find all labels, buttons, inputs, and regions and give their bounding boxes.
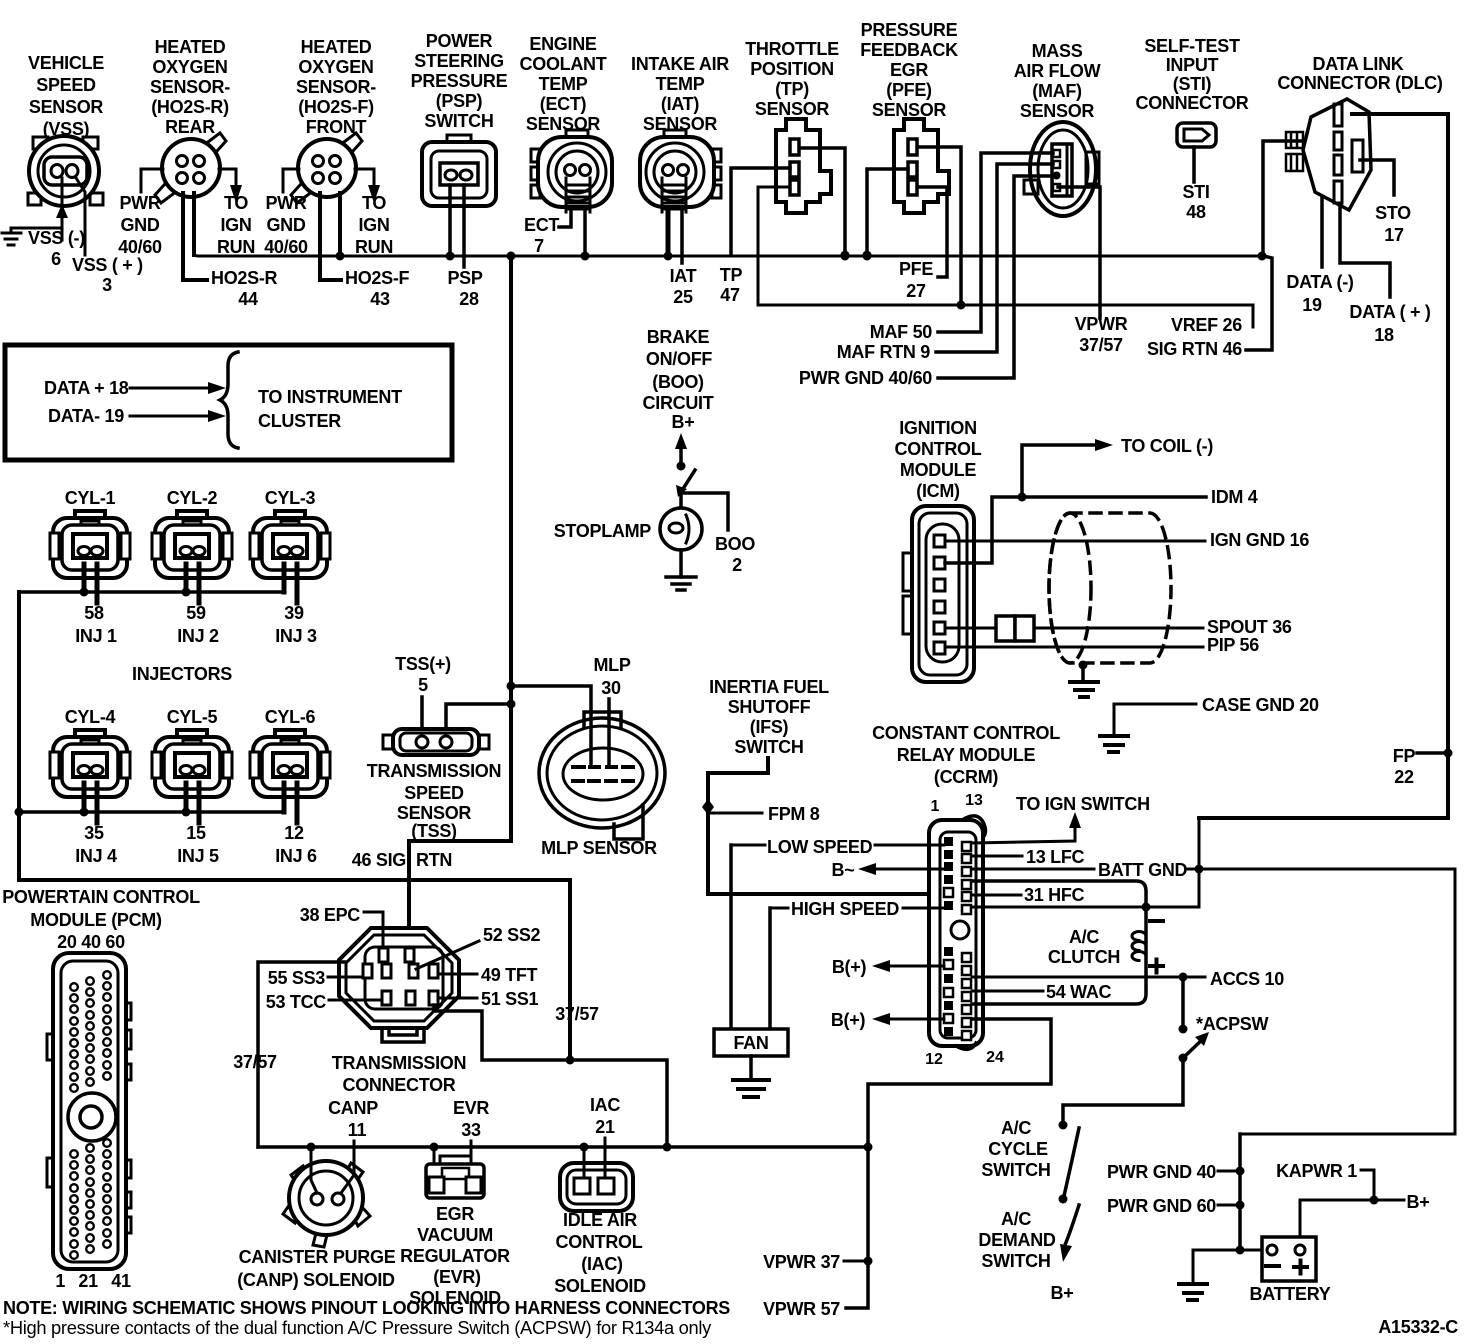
label LOW SPEED	[767, 837, 873, 857]
svg-text:7: 7	[534, 236, 544, 256]
svg-text:CANISTER PURGE: CANISTER PURGE	[239, 1247, 396, 1267]
connector IAT (intake air temp sensor)	[640, 130, 721, 207]
svg-text:STO: STO	[1375, 203, 1411, 223]
svg-text:SIG RTN 46: SIG RTN 46	[1147, 339, 1242, 359]
wire PFE pin2 to sig rtn	[863, 169, 909, 260]
label VSS (-) 6	[28, 228, 85, 269]
svg-text:15: 15	[186, 823, 206, 843]
label 38 EPC	[300, 905, 361, 925]
svg-text:30: 30	[601, 678, 621, 698]
svg-text:DATA (-): DATA (-)	[1286, 272, 1354, 292]
svg-text:A/C: A/C	[1001, 1118, 1031, 1138]
connector PCM (powertrain control module)	[47, 953, 131, 1269]
label pin 13 (CCRM)	[965, 792, 983, 809]
connector STI (self-test input)	[1177, 123, 1216, 147]
svg-text:*High pressure contacts of the: *High pressure contacts of the dual func…	[3, 1318, 711, 1338]
wire 31 HFC long	[972, 818, 1199, 912]
svg-text:TP: TP	[720, 265, 743, 285]
label EVR 33	[453, 1098, 489, 1140]
svg-text:(IFS): (IFS)	[750, 717, 789, 737]
wire IAC pin2	[604, 1138, 607, 1178]
svg-text:GND: GND	[120, 215, 159, 235]
label 52 SS2	[483, 925, 541, 945]
label pin 12 (CCRM)	[925, 1051, 943, 1068]
svg-text:COOLANT: COOLANT	[520, 54, 607, 74]
label VPWR 37/57	[1075, 314, 1128, 355]
label TO IGN RUN (HO2S-F)	[355, 193, 393, 257]
label TO IGN SWITCH	[1016, 794, 1150, 814]
wire injector bus row1	[19, 590, 284, 594]
svg-text:12: 12	[925, 1051, 943, 1068]
wire TO COIL arrow	[1022, 439, 1113, 497]
wire TSS branch	[446, 704, 511, 734]
svg-text:ON/OFF: ON/OFF	[646, 349, 712, 369]
label pin 12 INJ 6	[275, 823, 317, 866]
label CYL-3	[265, 488, 316, 508]
svg-text:13 LFC: 13 LFC	[1026, 847, 1085, 867]
svg-text:CONSTANT CONTROL: CONSTANT CONTROL	[872, 723, 1060, 743]
label TP 47	[720, 265, 743, 305]
label HIGH SPEED	[791, 899, 899, 919]
svg-text:INJ 2: INJ 2	[177, 626, 219, 646]
label TP title	[745, 39, 839, 119]
label pin 59 INJ 2	[177, 603, 219, 646]
svg-text:21: 21	[595, 1117, 615, 1137]
connector PSP (power steering pressure switch)	[422, 135, 496, 206]
svg-text:31 HFC: 31 HFC	[1024, 885, 1085, 905]
connector CYL-1 injector	[50, 511, 130, 578]
svg-text:IGN: IGN	[220, 215, 251, 235]
wire TP pin2 to TP 47	[731, 168, 790, 255]
svg-text:(TSS): (TSS)	[411, 821, 457, 841]
label ECT title	[520, 34, 607, 134]
wire sig-rtn trunk x512	[409, 256, 516, 949]
label ICM title	[895, 418, 982, 501]
wire B(+) upper arrow	[872, 960, 944, 972]
wire ECT ribbed tail	[566, 178, 590, 212]
label B(+) upper	[832, 957, 867, 977]
svg-text:46 SIG: 46 SIG	[352, 850, 406, 870]
wire TP pin3 VREF line	[758, 187, 1253, 327]
svg-text:ACCS 10: ACCS 10	[1210, 969, 1284, 989]
svg-text:FPM 8: FPM 8	[768, 804, 820, 824]
svg-text:CYL-6: CYL-6	[265, 707, 316, 727]
connector TP (throttle position sensor)	[776, 119, 831, 213]
svg-text:VEHICLE: VEHICLE	[28, 53, 104, 73]
svg-text:SOLENOID: SOLENOID	[554, 1276, 646, 1296]
svg-text:40/60: 40/60	[264, 237, 308, 257]
svg-text:DATA + 18: DATA + 18	[44, 378, 129, 398]
svg-text:A15332-C: A15332-C	[1378, 1317, 1458, 1337]
label IAT title	[631, 54, 729, 134]
label pin 39 INJ 3	[275, 603, 317, 646]
svg-text:DATA LINK: DATA LINK	[1313, 54, 1404, 74]
wire PSP pin2 to PSP 28	[462, 185, 466, 267]
svg-text:CONTROL: CONTROL	[556, 1232, 643, 1252]
svg-text:25: 25	[673, 287, 693, 307]
wire battery plus to B+	[1300, 1200, 1404, 1237]
connector MLP sensor	[539, 712, 665, 839]
label CYL-2	[167, 488, 218, 508]
label VSS (+) 3	[72, 255, 143, 295]
wire MAF RTN 9	[936, 164, 1053, 352]
svg-text:48: 48	[1186, 202, 1206, 222]
lamp STOPLAMP	[660, 493, 702, 550]
wire HO2S-R 44 signal	[183, 193, 207, 280]
label BOO 2	[715, 534, 755, 575]
svg-text:TSS(+): TSS(+)	[395, 654, 451, 674]
ground (VSS)	[2, 233, 21, 245]
label CANISTER PURGE (CANP) SOLENOID	[237, 1247, 395, 1290]
label footnote	[3, 1318, 711, 1338]
wire ACPSW to cycle switch	[1059, 1058, 1184, 1130]
label A/C CLUTCH	[1048, 927, 1120, 967]
svg-text:PRESSURE: PRESSURE	[411, 71, 508, 91]
svg-text:REGULATOR: REGULATOR	[400, 1246, 510, 1266]
wire CASE GND 20	[1114, 704, 1196, 735]
svg-text:INJECTORS: INJECTORS	[132, 664, 232, 684]
label NOTE line	[3, 1298, 730, 1318]
svg-text:19: 19	[1302, 295, 1322, 315]
svg-text:CONNECTOR: CONNECTOR	[343, 1075, 456, 1095]
svg-text:38 EPC: 38 EPC	[300, 905, 361, 925]
wire IAT 25 drop	[680, 212, 684, 263]
label MLP SENSOR	[541, 838, 657, 858]
svg-text:CONTROL: CONTROL	[895, 439, 982, 459]
switch A/C cycle	[1059, 1128, 1080, 1204]
wire MAF 50	[938, 153, 1053, 332]
wire PFE pin1 to VREF	[918, 147, 966, 310]
wire fan ground	[749, 1056, 753, 1079]
label CANP 11	[328, 1098, 378, 1140]
label IGN GND 16	[1210, 530, 1309, 550]
ground (case gnd)	[1100, 736, 1128, 752]
label MLP 30	[593, 655, 630, 698]
svg-text:5: 5	[418, 675, 428, 695]
svg-text:B(+): B(+)	[831, 1010, 866, 1030]
svg-text:FP: FP	[1393, 746, 1416, 766]
connector CCRM (constant control relay module)	[929, 816, 985, 1050]
wire BOO branch	[681, 493, 728, 530]
label STOPLAMP	[554, 521, 652, 541]
svg-text:MLP SENSOR: MLP SENSOR	[541, 838, 657, 858]
label 53 TCC	[266, 992, 327, 1012]
wire DLC DATA(-)	[1320, 198, 1324, 267]
svg-text:47: 47	[720, 285, 740, 305]
svg-text:CYCLE: CYCLE	[988, 1139, 1048, 1159]
svg-text:KAPWR 1: KAPWR 1	[1276, 1161, 1357, 1181]
label 49 TFT	[481, 965, 538, 985]
wire B+ arrow (BOO)	[675, 433, 687, 471]
svg-text:POSITION: POSITION	[750, 59, 834, 79]
svg-text:VSS ( + ): VSS ( + )	[72, 255, 143, 275]
connector PFE (pressure feedback EGR sensor)	[894, 119, 949, 213]
svg-text:EVR: EVR	[453, 1098, 489, 1118]
svg-text:52 SS2: 52 SS2	[483, 925, 541, 945]
label VPWR 37	[763, 1252, 840, 1272]
label MAF title	[1014, 41, 1101, 121]
svg-text:49 TFT: 49 TFT	[481, 965, 538, 985]
wire CYL-3 pin2	[295, 564, 300, 603]
wire HO2S-F pwr gnd	[283, 169, 299, 192]
wire battery gnd vertical	[1236, 1134, 1245, 1255]
svg-text:HO2S-F: HO2S-F	[345, 268, 410, 288]
wire CYL-2 pin1	[182, 564, 191, 597]
connector HO2S-R (heated oxygen sensor rear)	[155, 133, 226, 203]
wire 13 LFC	[972, 855, 1022, 858]
label HO2S-F 43	[345, 268, 410, 309]
label BATT GND	[1098, 860, 1188, 880]
wire VSS(-) to ground	[11, 178, 68, 240]
svg-text:SHUTOFF: SHUTOFF	[728, 697, 811, 717]
switch BOO (brake switch)	[676, 470, 695, 497]
wire SPOUT 36	[1034, 627, 1203, 630]
wire STI 48	[1192, 147, 1196, 182]
svg-text:55 SS3: 55 SS3	[268, 968, 326, 988]
wire 31 HFC stub	[972, 894, 1021, 897]
label 51 SS1	[481, 989, 539, 1009]
node transmission connector pins	[363, 948, 438, 1005]
svg-text:OXYGEN: OXYGEN	[152, 57, 227, 77]
wire MLP branch	[511, 686, 591, 765]
label BRAKE ON/OFF (BOO) CIRCUIT	[643, 327, 714, 413]
svg-text:DATA- 19: DATA- 19	[48, 406, 124, 426]
wire KAPWR 1 elbow	[1361, 1170, 1379, 1205]
wire CYL-1 pin1	[80, 564, 89, 597]
svg-text:PRESSURE: PRESSURE	[861, 20, 958, 40]
svg-text:LOW SPEED: LOW SPEED	[767, 837, 873, 857]
svg-text:ECT: ECT	[524, 215, 559, 235]
wire AC clutch loop	[972, 881, 1146, 1004]
label STO 17	[1375, 203, 1411, 245]
svg-text:TO: TO	[362, 193, 386, 213]
svg-text:58: 58	[84, 603, 104, 623]
svg-text:44: 44	[238, 289, 258, 309]
wire 54 WAC	[972, 990, 1043, 993]
label PSP title	[411, 31, 508, 131]
wire BATT GND	[972, 865, 1455, 1135]
svg-text:AIR FLOW: AIR FLOW	[1014, 61, 1101, 81]
wire FPM 8 stub	[708, 812, 762, 815]
svg-text:STEERING: STEERING	[414, 51, 504, 71]
label PWR GND 40	[1107, 1162, 1216, 1182]
label pin 35 INJ 4	[75, 823, 117, 866]
wire ACCS 10	[972, 973, 1205, 982]
label DATA ( + ) 18	[1349, 302, 1430, 345]
wire left VPWR vertical	[17, 592, 21, 880]
svg-text:MAF RTN 9: MAF RTN 9	[837, 342, 931, 362]
svg-text:(CANP) SOLENOID: (CANP) SOLENOID	[237, 1270, 395, 1290]
svg-text:DATA ( + ): DATA ( + )	[1349, 302, 1430, 322]
svg-text:RTN: RTN	[416, 850, 452, 870]
label pin 58 INJ 1	[75, 603, 117, 646]
svg-text:B+: B+	[1051, 1283, 1074, 1303]
svg-text:BOO: BOO	[715, 534, 755, 554]
wire CYL-1 pin2	[95, 564, 100, 603]
svg-text:51 SS1: 51 SS1	[481, 989, 539, 1009]
wire battery minus lead	[1193, 1249, 1262, 1252]
svg-text:SENSOR-: SENSOR-	[296, 77, 376, 97]
svg-text:IGNITION: IGNITION	[899, 418, 977, 438]
connector transmission (octagon)	[339, 928, 459, 1042]
wire EVR pin2	[470, 1141, 473, 1168]
svg-text:SPOUT 36: SPOUT 36	[1207, 617, 1292, 637]
label VSS title	[28, 53, 104, 139]
label IAT 25	[670, 266, 697, 307]
svg-text:VACUUM: VACUUM	[417, 1225, 493, 1245]
svg-text:B+: B+	[672, 412, 695, 432]
svg-text:PWR: PWR	[265, 193, 306, 213]
svg-text:2: 2	[732, 555, 742, 575]
connector VSS (vehicle speed sensor)	[28, 136, 103, 206]
label 31 HFC	[1024, 885, 1085, 905]
node instrument cluster box	[5, 345, 452, 460]
svg-text:INJ 5: INJ 5	[177, 846, 219, 866]
label IDLE AIR CONTROL (IAC) SOLENOID	[554, 1210, 646, 1296]
label 54 WAC	[1046, 982, 1112, 1002]
label CYL-5	[167, 707, 218, 727]
wire MAF vpwr	[1058, 187, 1100, 318]
label IAC 21	[590, 1095, 620, 1137]
label PWR GND 60	[1107, 1196, 1216, 1216]
wire CYL-4 pin1	[80, 783, 89, 817]
label FPM 8	[768, 804, 820, 824]
svg-text:CANP: CANP	[328, 1098, 378, 1118]
svg-text:MODULE: MODULE	[900, 460, 976, 480]
wire MLP 30 pin	[607, 699, 611, 765]
connector ECT (engine coolant temp sensor)	[531, 130, 612, 207]
svg-text:CLUTCH: CLUTCH	[1048, 947, 1120, 967]
wire FP 22 stub	[1417, 751, 1448, 755]
label 46 SIG RTN	[352, 850, 452, 870]
component SPOUT connector boxes	[945, 616, 1034, 641]
svg-text:6: 6	[51, 249, 61, 269]
svg-text:B(+): B(+)	[832, 957, 867, 977]
svg-text:3: 3	[102, 275, 112, 295]
wire CYL-6 pin1	[282, 783, 287, 812]
wire 55 SS3	[328, 976, 363, 979]
label TO COIL (-)	[1121, 436, 1213, 456]
connector HO2S-F (heated oxygen sensor front)	[291, 133, 362, 203]
label DLC title	[1277, 54, 1442, 93]
svg-text:(PFE): (PFE)	[886, 80, 932, 100]
wire DLC DATA(+)	[1340, 205, 1390, 297]
connector CYL-2 injector	[152, 511, 232, 578]
label 13 LFC	[1026, 847, 1085, 867]
svg-text:RUN: RUN	[217, 237, 255, 257]
svg-text:CIRCUIT: CIRCUIT	[643, 393, 714, 413]
svg-text:TO INSTRUMENT: TO INSTRUMENT	[258, 387, 402, 407]
wire TP pin1 to sig rtn	[800, 148, 850, 260]
svg-text:CONNECTOR: CONNECTOR	[1136, 93, 1249, 113]
svg-text:PWR: PWR	[119, 193, 160, 213]
svg-text:INPUT: INPUT	[1166, 55, 1219, 75]
label FP 22	[1393, 746, 1416, 787]
connector TSS (transmission speed sensor)	[383, 729, 489, 755]
svg-text:SENSOR: SENSOR	[1020, 101, 1095, 121]
svg-text:18: 18	[1374, 325, 1394, 345]
svg-text:OXYGEN: OXYGEN	[298, 57, 373, 77]
wire 53 TCC	[329, 999, 382, 1002]
svg-text:TO COIL (-): TO COIL (-)	[1121, 436, 1213, 456]
wire IAT sig rtn drop	[666, 212, 671, 255]
label DATA + 18	[44, 378, 129, 398]
label DATA (-) 19	[1286, 272, 1354, 315]
svg-text:SELF-TEST: SELF-TEST	[1144, 36, 1240, 56]
svg-text:13: 13	[965, 792, 983, 809]
label MAF RTN 9	[837, 342, 931, 362]
svg-text:(ECT): (ECT)	[540, 94, 587, 114]
wire EVR pin1	[433, 1147, 436, 1168]
wire DLC left pins to sig rtn bus	[1263, 141, 1303, 255]
wire ECT 7 elbow	[559, 212, 571, 227]
svg-text:35: 35	[84, 823, 104, 843]
label HO2S-R title	[150, 37, 230, 137]
label 55 SS3	[268, 968, 326, 988]
label STI title	[1136, 36, 1249, 113]
label B(+) lower	[831, 1010, 866, 1030]
wire PWR GND 60 stub	[1218, 1201, 1245, 1210]
wire CYL-6 pin2	[295, 783, 300, 823]
svg-text:(IAC): (IAC)	[581, 1254, 623, 1274]
wire PWR GND 40 stub	[1218, 1167, 1245, 1176]
svg-text:(IAT): (IAT)	[661, 94, 699, 114]
svg-text:CYL-3: CYL-3	[265, 488, 316, 508]
label CASE GND 20	[1202, 695, 1319, 715]
svg-text:REAR: REAR	[165, 117, 215, 137]
svg-text:BATT GND: BATT GND	[1098, 860, 1188, 880]
svg-text:HO2S-R: HO2S-R	[211, 268, 278, 288]
label VREF 26	[1171, 315, 1242, 335]
svg-text:SWITCH: SWITCH	[981, 1160, 1050, 1180]
svg-text:IAC: IAC	[590, 1095, 620, 1115]
wire B(+) lower arrow	[872, 1013, 944, 1025]
svg-text:THROTTLE: THROTTLE	[745, 39, 839, 59]
connector ICM (ignition control module)	[903, 506, 974, 682]
wire CYL-5 pin1	[182, 783, 191, 817]
wire 51 SS1	[438, 997, 477, 1000]
label MAF 50	[870, 322, 933, 342]
svg-text:40/60: 40/60	[118, 237, 162, 257]
svg-text:(CCRM): (CCRM)	[934, 767, 998, 787]
wire fan low speed vertical	[729, 845, 733, 1029]
wire IGN GND 16	[945, 540, 1205, 543]
label TSS title	[367, 761, 501, 841]
svg-text:24: 24	[986, 1049, 1004, 1066]
label INJECTORS	[132, 664, 232, 684]
label pin 1 (CCRM)	[931, 798, 940, 815]
svg-text:SWITCH: SWITCH	[734, 737, 803, 757]
node brace to instrument cluster	[220, 352, 238, 448]
svg-text:(STI): (STI)	[1173, 74, 1212, 94]
svg-text:37/57: 37/57	[233, 1052, 277, 1072]
component A/C clutch coil	[1132, 932, 1146, 961]
svg-text:27: 27	[906, 281, 926, 301]
svg-text:CYL-5: CYL-5	[167, 707, 218, 727]
label 37/57 left	[233, 1052, 277, 1072]
svg-text:STOPLAMP: STOPLAMP	[554, 521, 652, 541]
svg-text:CYL-4: CYL-4	[65, 707, 116, 727]
svg-text:TRANSMISSION: TRANSMISSION	[332, 1053, 466, 1073]
svg-text:SENSOR: SENSOR	[29, 97, 104, 117]
wire ACPSW branch	[1179, 977, 1188, 1034]
ground (stoplamp)	[666, 577, 696, 590]
svg-text:TEMP: TEMP	[539, 74, 588, 94]
wire CYL-4 pin2	[95, 783, 100, 823]
svg-text:(HO2S-F): (HO2S-F)	[298, 97, 374, 117]
wire fan high speed vertical	[768, 908, 772, 1029]
svg-text:CLUSTER: CLUSTER	[258, 411, 341, 431]
